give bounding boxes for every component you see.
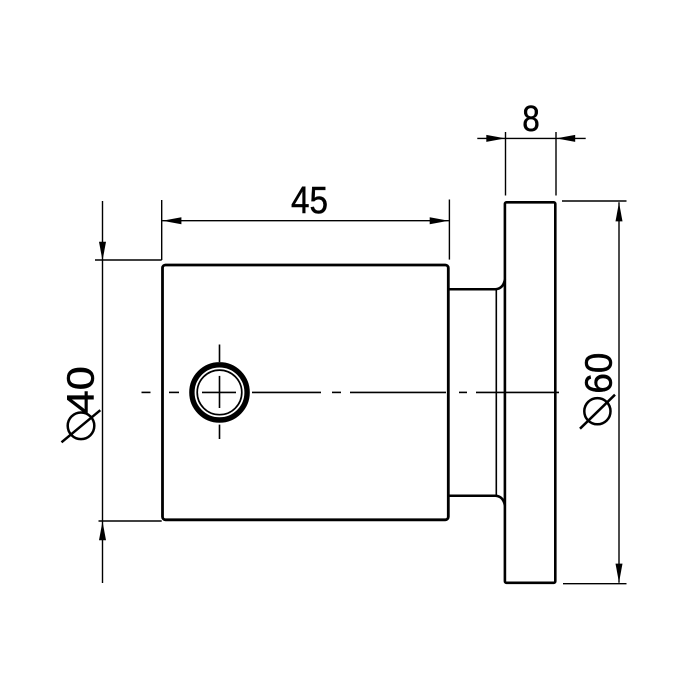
dimension dia60: diameter symbol <box>584 398 610 424</box>
neck bottom edge <box>448 495 495 498</box>
dimension dia40: dimension line <box>102 201 104 583</box>
dimension dia40: top arrow (outside pointing down) <box>99 242 106 261</box>
neck bottom fillet <box>496 496 505 506</box>
flange outline <box>505 202 555 583</box>
svg-text:8: 8 <box>522 98 540 139</box>
dimension dia60: bottom arrow (inside pointing down) <box>616 564 623 583</box>
svg-text:60: 60 <box>578 353 621 394</box>
main body outline <box>163 265 449 520</box>
dimension dia60: extension lines <box>562 200 627 202</box>
dimension dia40: diameter symbol <box>68 413 95 440</box>
vertical center mark of port circle <box>219 345 221 440</box>
neck top edge <box>448 288 495 291</box>
neck top fillet <box>496 280 505 290</box>
dimension 45: extension lines <box>161 200 163 260</box>
port circle inner (thread minor) <box>197 370 242 415</box>
horizontal centerline <box>142 391 560 393</box>
dimension dia60: dimension line <box>618 202 620 583</box>
dimension 8: left arrow (outside) <box>486 135 505 142</box>
svg-text:40: 40 <box>60 366 103 414</box>
dimension 8: right arrow (outside) <box>556 135 575 142</box>
port circle outer (thread major) <box>192 365 247 420</box>
dimension 45: dimension line <box>162 220 449 222</box>
dimension dia60: top arrow (inside pointing up) <box>616 202 623 221</box>
dimension 45: left arrow <box>162 217 181 224</box>
neck fillet tangent edge <box>495 289 497 496</box>
dimension dia40: bottom arrow (outside pointing up) <box>99 521 106 540</box>
dimension dia40: extension lines <box>95 259 162 261</box>
dimension 45: right arrow <box>430 217 449 224</box>
svg-text:45: 45 <box>291 179 328 222</box>
dimension 8: extension lines <box>505 132 507 196</box>
dimension 8: dimension line <box>477 137 585 139</box>
